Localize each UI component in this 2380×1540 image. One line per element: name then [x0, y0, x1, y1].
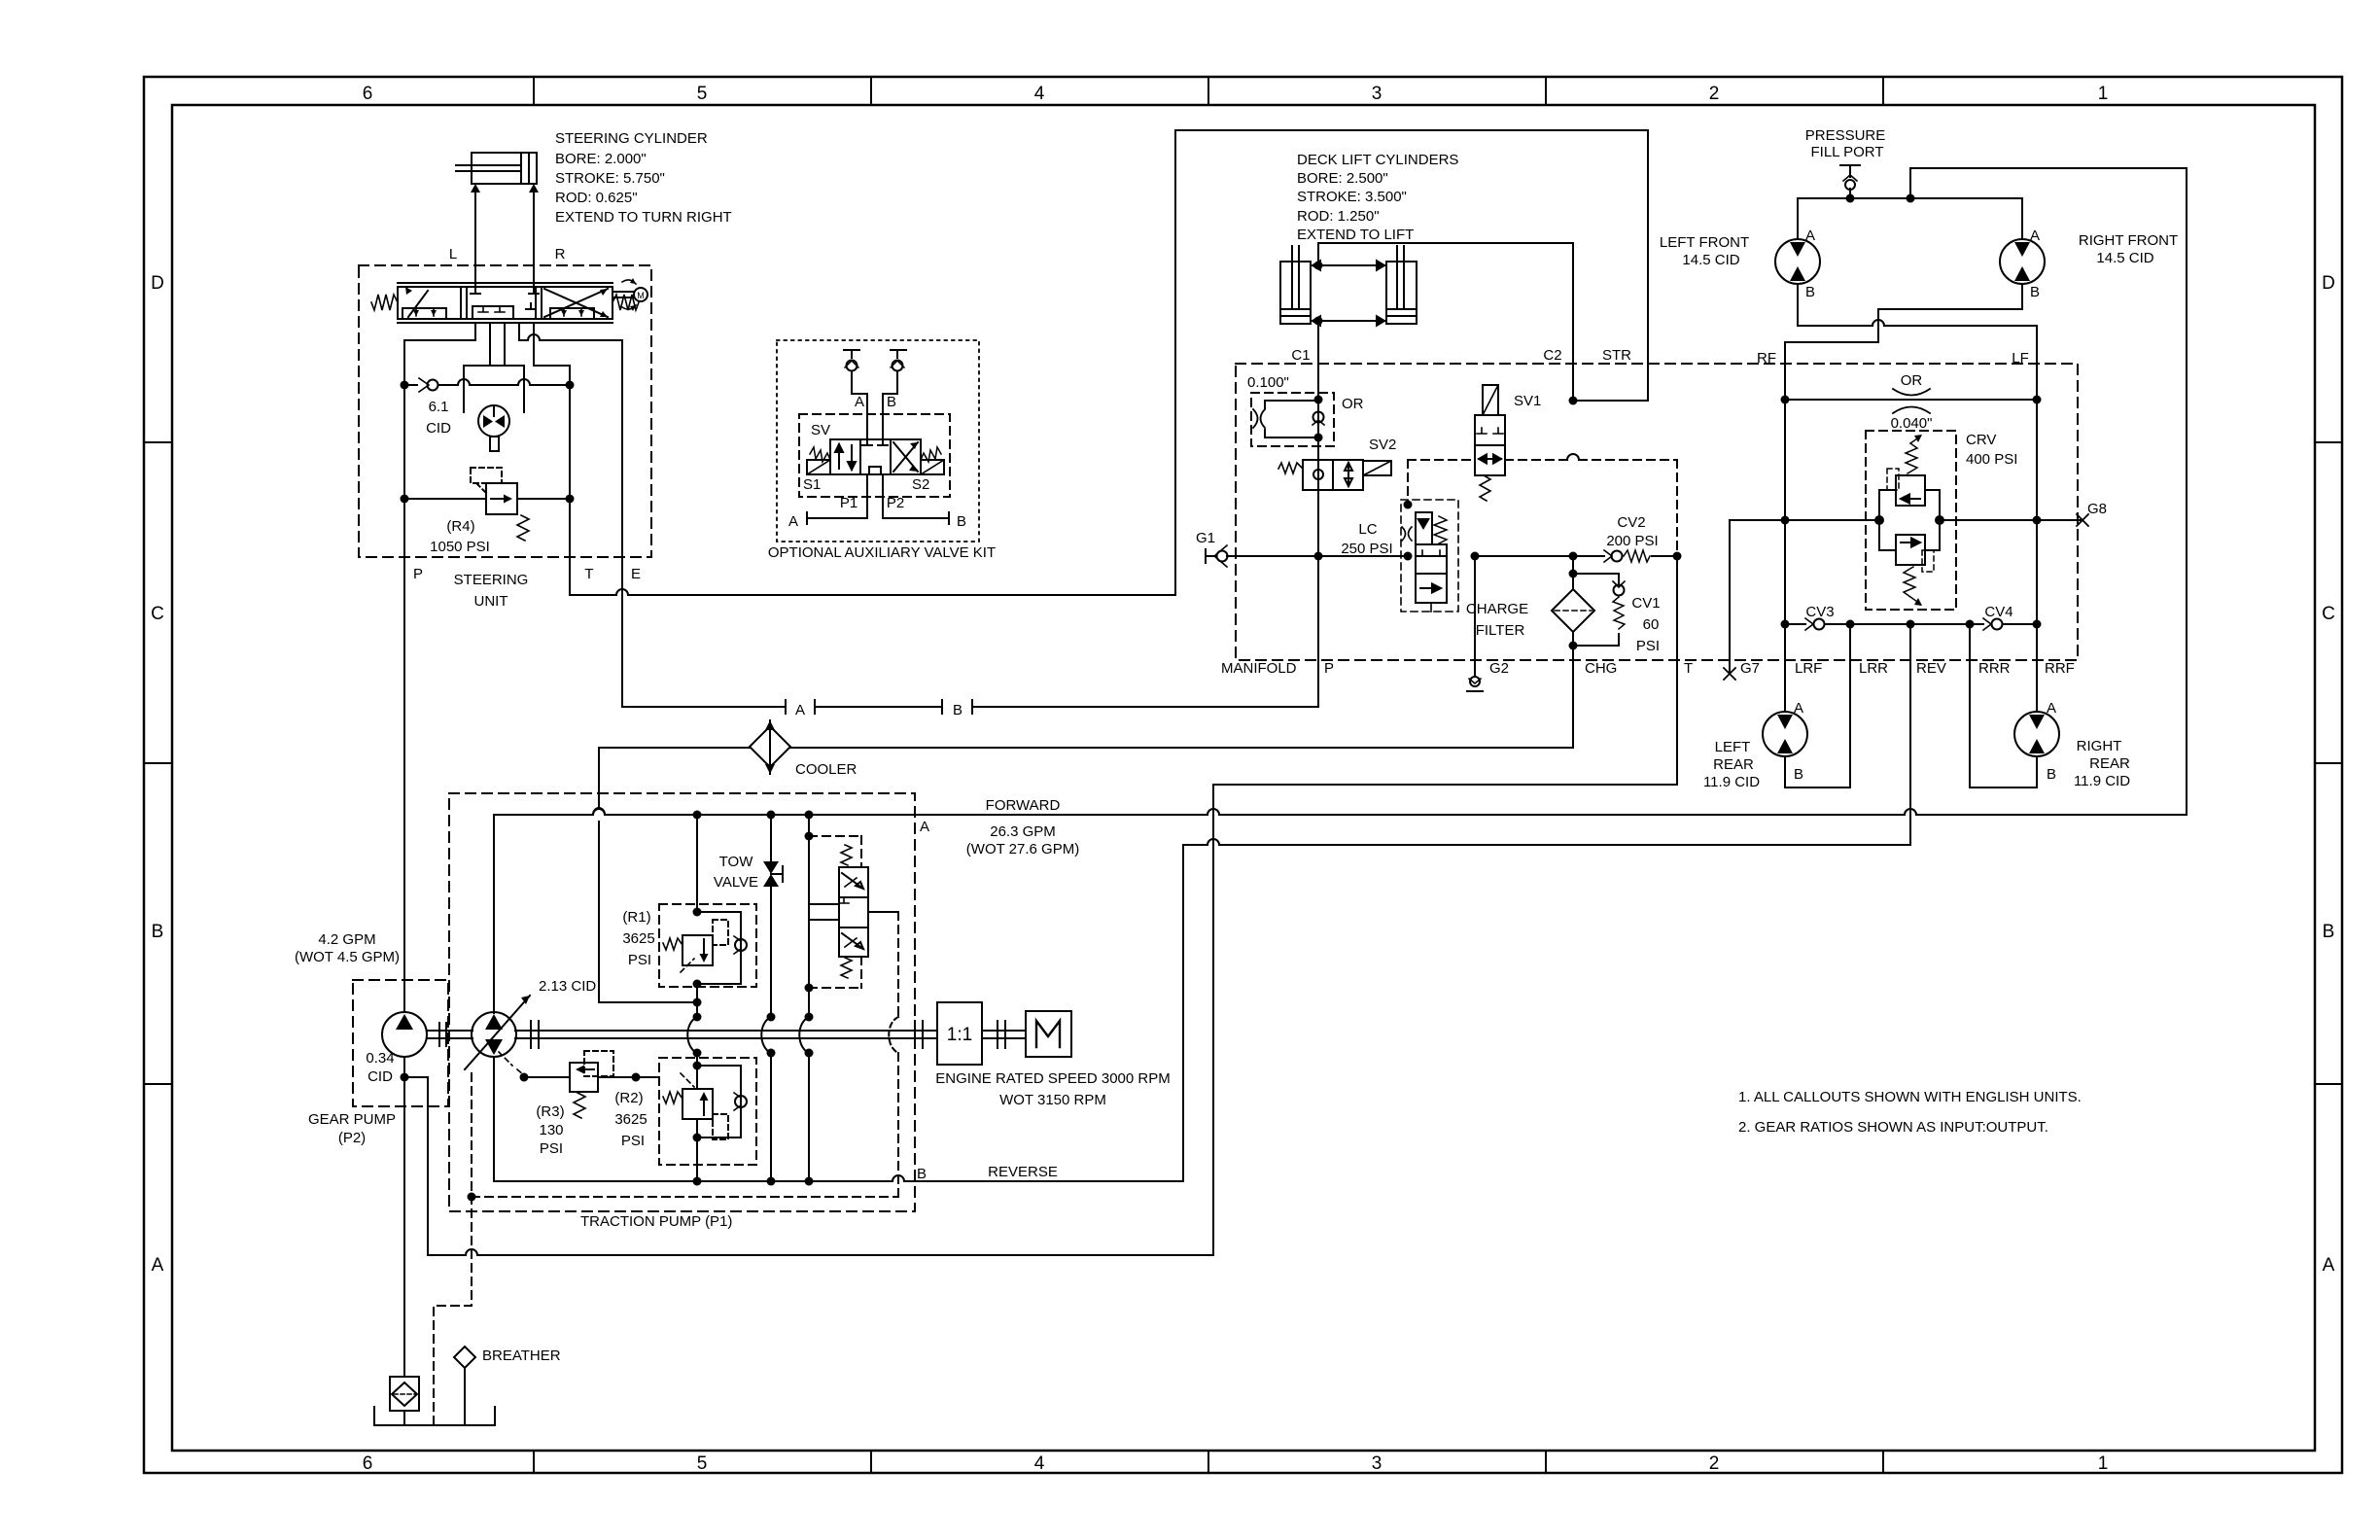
- svg-text:3625: 3625: [614, 1111, 647, 1128]
- servo valve assembly: [799, 815, 898, 1197]
- svg-text:B: B: [152, 922, 164, 942]
- relief R3: [499, 1051, 659, 1118]
- svg-text:S2: S2: [912, 476, 929, 493]
- svg-text:B: B: [1805, 284, 1815, 300]
- svg-text:REVERSE: REVERSE: [988, 1164, 1058, 1180]
- right deck cylinder: [1386, 262, 1417, 324]
- svg-text:L: L: [449, 246, 457, 262]
- svg-text:1. ALL CALLOUTS SHOWN WITH ENG: 1. ALL CALLOUTS SHOWN WITH ENGLISH UNITS…: [1738, 1089, 2082, 1105]
- svg-text:C: C: [2322, 604, 2335, 624]
- steering cylinder port arrow R: [529, 184, 539, 192]
- svg-text:P1: P1: [840, 495, 857, 511]
- wire C1 riser: [1317, 321, 1319, 556]
- svg-text:LRF: LRF: [1795, 660, 1822, 677]
- wire C1 through manifold: [1317, 437, 1319, 660]
- svg-text:SV: SV: [811, 422, 830, 438]
- svg-text:BORE: 2.000": BORE: 2.000": [555, 151, 647, 167]
- motor RIGHT FRONT: [2000, 239, 2045, 309]
- tow valve: [761, 815, 783, 1181]
- svg-text:B: B: [1794, 766, 1803, 783]
- svg-text:TRACTION PUMP (P1): TRACTION PUMP (P1): [580, 1213, 732, 1230]
- gear pump P2: [353, 980, 448, 1106]
- svg-text:E: E: [631, 566, 641, 582]
- svg-text:PRESSURE: PRESSURE: [1805, 127, 1886, 144]
- wire FORWARD A line: [494, 809, 2187, 815]
- left spring: [371, 295, 398, 310]
- check CV1 bypass: [1573, 574, 1625, 646]
- svg-text:SV1: SV1: [1514, 393, 1541, 409]
- svg-text:LC: LC: [1358, 521, 1377, 538]
- svg-text:(R2): (R2): [614, 1090, 643, 1106]
- svg-text:CRV: CRV: [1966, 432, 1996, 448]
- engine M: [1026, 1011, 1071, 1057]
- svg-text:(WOT 4.5 GPM): (WOT 4.5 GPM): [295, 949, 400, 965]
- wire G7-G8 line: [1724, 514, 2088, 680]
- zone ticks right: [2315, 442, 2342, 1084]
- svg-text:5: 5: [697, 1453, 708, 1474]
- wire T inside steering unit: [569, 385, 571, 557]
- svg-text:RIGHT FRONT: RIGHT FRONT: [2079, 232, 2178, 249]
- wire R cylinder to valve: [533, 188, 535, 287]
- svg-text:REAR: REAR: [1713, 756, 1754, 773]
- wire suction down to strainer: [403, 1057, 405, 1377]
- svg-text:VALVE: VALVE: [714, 874, 758, 891]
- svg-text:WOT 3150 RPM: WOT 3150 RPM: [999, 1092, 1106, 1108]
- svg-text:200 PSI: 200 PSI: [1606, 533, 1658, 549]
- svg-text:60: 60: [1643, 616, 1660, 633]
- svg-text:B: B: [887, 394, 896, 410]
- wire LF vertical (RRF): [2036, 326, 2038, 712]
- svg-text:A: A: [1805, 227, 1815, 244]
- orifice OR 0.040 line: [1785, 389, 2037, 413]
- wire T port drop from manifold: [1213, 556, 1677, 1255]
- svg-text:A: A: [920, 819, 929, 835]
- LC pilot dashed line: [1408, 460, 1677, 556]
- svg-text:REV: REV: [1916, 660, 1946, 677]
- svg-text:CV4: CV4: [1984, 604, 2012, 620]
- svg-text:LF: LF: [2012, 350, 2029, 367]
- svg-text:1: 1: [2098, 1453, 2109, 1474]
- svg-text:A: A: [2030, 227, 2040, 244]
- steering valve pilot motor: [612, 278, 647, 311]
- LC orifice arcs: [1402, 527, 1412, 541]
- svg-text:UNIT: UNIT: [474, 593, 508, 610]
- svg-text:26.3 GPM: 26.3 GPM: [990, 823, 1056, 840]
- relief R2 assembly: [659, 1058, 756, 1181]
- svg-text:4.2 GPM: 4.2 GPM: [318, 931, 375, 948]
- steering control valve: [371, 283, 639, 323]
- svg-text:14.5 CID: 14.5 CID: [1682, 252, 1739, 268]
- svg-text:FILL PORT: FILL PORT: [1810, 144, 1883, 160]
- svg-text:G7: G7: [1740, 660, 1760, 677]
- svg-text:0.100": 0.100": [1247, 374, 1289, 391]
- svg-text:(R3): (R3): [536, 1103, 564, 1120]
- svg-text:DECK LIFT CYLINDERS: DECK LIFT CYLINDERS: [1297, 152, 1458, 168]
- center envelope internals: [471, 287, 539, 294]
- LC spring (horizontal zigzag right of check): [1434, 516, 1447, 543]
- wire E line to manifold P: [622, 557, 1318, 714]
- rod-end port line: [1318, 264, 1386, 266]
- svg-text:11.9 CID: 11.9 CID: [2074, 773, 2130, 789]
- svg-text:3625: 3625: [622, 930, 654, 947]
- gearbox 1:1: [937, 1002, 1026, 1065]
- motor LEFT FRONT: [1775, 239, 1820, 326]
- svg-text:2: 2: [1709, 1453, 1720, 1474]
- svg-text:A: A: [152, 1255, 164, 1276]
- svg-text:CID: CID: [367, 1068, 393, 1085]
- gerotor metering unit: [464, 366, 524, 451]
- svg-text:PSI: PSI: [540, 1140, 563, 1157]
- svg-text:D: D: [151, 273, 164, 294]
- check valve line in steering unit: [404, 378, 570, 392]
- aux P1/P2 drops and A/B stubs: [807, 474, 949, 524]
- breather: [454, 1347, 475, 1425]
- front motor B cross wires: [1785, 309, 2037, 342]
- svg-text:B: B: [953, 702, 962, 718]
- left deck cylinder: [1280, 262, 1311, 324]
- svg-text:ROD: 0.625": ROD: 0.625": [555, 190, 638, 206]
- svg-text:6.1: 6.1: [429, 399, 449, 415]
- tank: [374, 1407, 495, 1425]
- charge filter: [1552, 556, 1594, 660]
- svg-text:A: A: [795, 702, 805, 718]
- aux valve SV body: [807, 439, 944, 474]
- svg-text:CHG: CHG: [1585, 660, 1617, 677]
- cross relief valve CRV: [1866, 431, 1956, 610]
- svg-text:FILTER: FILTER: [1476, 622, 1525, 639]
- wire C2 rail: [1318, 243, 1573, 401]
- svg-text:A: A: [855, 394, 864, 410]
- svg-text:250 PSI: 250 PSI: [1341, 541, 1392, 557]
- svg-text:CV1: CV1: [1631, 595, 1660, 612]
- svg-text:LRR: LRR: [1859, 660, 1888, 677]
- svg-text:BREATHER: BREATHER: [482, 1347, 561, 1364]
- svg-text:RIGHT: RIGHT: [2077, 738, 2122, 754]
- svg-text:2: 2: [1709, 84, 1720, 104]
- zone ticks bottom: [534, 1451, 1883, 1473]
- traction pump P1 dashed box: [449, 793, 915, 1211]
- aux valve SV dashed box: [799, 414, 950, 497]
- svg-text:CV2: CV2: [1617, 514, 1645, 531]
- springs: [810, 447, 830, 462]
- svg-text:PSI: PSI: [621, 1133, 645, 1149]
- svg-text:P2: P2: [887, 495, 904, 511]
- svg-text:GEAR PUMP: GEAR PUMP: [308, 1111, 396, 1128]
- svg-text:A: A: [788, 513, 798, 530]
- steering unit internal wires below valve: [404, 323, 622, 557]
- case drain dashed to tank: [434, 1073, 472, 1425]
- svg-text:C1: C1: [1291, 347, 1310, 364]
- node: [401, 381, 409, 390]
- svg-text:130: 130: [539, 1122, 563, 1138]
- shaft gear pump to traction pump: [427, 1023, 472, 1046]
- border inner: [172, 105, 2315, 1451]
- svg-text:11.9 CID: 11.9 CID: [1703, 774, 1760, 790]
- traction pump variable: [465, 815, 530, 1181]
- wire tank return to suction: [404, 1077, 1213, 1255]
- svg-text:G2: G2: [1489, 660, 1509, 677]
- svg-text:STEERING: STEERING: [454, 572, 529, 588]
- front motors rail: [1798, 165, 2187, 815]
- svg-text:B: B: [2323, 922, 2335, 942]
- svg-text:1: 1: [2098, 84, 2109, 104]
- right envelope internals: [544, 289, 608, 317]
- svg-text:LEFT FRONT: LEFT FRONT: [1660, 234, 1749, 251]
- check CV2: [1604, 550, 1677, 562]
- svg-text:1:1: 1:1: [947, 1025, 972, 1045]
- svg-text:B: B: [917, 1166, 927, 1182]
- motor LEFT REAR: [1763, 712, 1850, 787]
- svg-text:(WOT 27.6 GPM): (WOT 27.6 GPM): [966, 841, 1079, 857]
- svg-text:0.34: 0.34: [366, 1050, 394, 1067]
- deck lift cylinders: [1280, 246, 1417, 328]
- cooler: [750, 720, 790, 774]
- servo drain dashed: [472, 1196, 898, 1198]
- svg-text:6: 6: [363, 84, 373, 104]
- svg-text:EXTEND TO TURN RIGHT: EXTEND TO TURN RIGHT: [555, 209, 732, 226]
- left envelope internals: [402, 308, 446, 319]
- manifold dashed box: [1236, 364, 2078, 660]
- optional auxiliary valve kit dotted box: [777, 340, 979, 542]
- svg-text:CHARGE: CHARGE: [1466, 601, 1528, 617]
- zone ticks top: [534, 77, 1883, 105]
- svg-text:CV3: CV3: [1805, 604, 1834, 620]
- svg-text:A: A: [1794, 700, 1803, 717]
- svg-text:M: M: [637, 291, 645, 300]
- svg-text:3: 3: [1372, 1453, 1382, 1474]
- wire STR riser up and across: [1175, 130, 1648, 595]
- svg-text:LEFT: LEFT: [1715, 739, 1751, 755]
- notes: [1738, 1089, 2082, 1136]
- wire R1 vertical through shaft: [696, 1002, 698, 1066]
- svg-text:D: D: [2322, 273, 2335, 294]
- svg-text:R: R: [555, 246, 566, 262]
- svg-text:B: B: [2047, 766, 2056, 783]
- wire RRR drop: [1969, 624, 1971, 787]
- cap-end port line: [1318, 320, 1386, 322]
- svg-text:(R4): (R4): [446, 518, 474, 535]
- svg-text:(R1): (R1): [622, 909, 650, 926]
- relief valve R4: [404, 468, 570, 541]
- svg-text:OR: OR: [1901, 372, 1923, 389]
- svg-text:B: B: [2030, 284, 2040, 300]
- wire cooler line: [593, 748, 1573, 1002]
- svg-text:RRF: RRF: [2045, 660, 2075, 677]
- svg-text:T: T: [1684, 660, 1693, 677]
- orifice OR 0.100 assembly: [1251, 393, 1334, 446]
- svg-text:6: 6: [363, 1453, 373, 1474]
- svg-text:BORE: 2.500": BORE: 2.500": [1297, 170, 1388, 187]
- svg-text:STEERING CYLINDER: STEERING CYLINDER: [555, 130, 708, 147]
- motor RIGHT REAR: [1970, 712, 2059, 787]
- solenoid valve SV1: [1475, 385, 1505, 501]
- svg-text:S1: S1: [803, 476, 821, 493]
- svg-text:P: P: [413, 566, 423, 582]
- svg-text:COOLER: COOLER: [795, 761, 857, 778]
- svg-text:EXTEND TO LIFT: EXTEND TO LIFT: [1297, 227, 1414, 243]
- svg-text:OPTIONAL AUXILIARY VALVE KIT: OPTIONAL AUXILIARY VALVE KIT: [768, 544, 996, 561]
- svg-text:4: 4: [1034, 1453, 1045, 1474]
- wire LRR drop: [1849, 624, 1851, 787]
- svg-text:A: A: [2323, 1255, 2335, 1276]
- svg-text:PSI: PSI: [1636, 638, 1660, 654]
- relief R1 assembly: [659, 815, 756, 1002]
- steering cylinder: [456, 153, 537, 184]
- svg-text:TOW: TOW: [719, 854, 754, 870]
- steering cylinder port arrow L: [471, 184, 480, 192]
- svg-text:SV2: SV2: [1369, 437, 1396, 453]
- zone ticks left: [144, 442, 172, 1084]
- wire REV drop: [1909, 624, 1911, 673]
- svg-text:PSI: PSI: [628, 952, 651, 968]
- wire RF vertical (LRF): [1784, 342, 1786, 712]
- check CV3 / CV4 row: [1785, 618, 2037, 630]
- svg-text:OR: OR: [1342, 396, 1364, 412]
- svg-text:400 PSI: 400 PSI: [1966, 451, 2017, 468]
- svg-text:2.13 CID: 2.13 CID: [539, 978, 596, 995]
- svg-text:4: 4: [1034, 84, 1045, 104]
- svg-text:STROKE: 5.750": STROKE: 5.750": [555, 170, 665, 187]
- strainer: [390, 1377, 419, 1425]
- svg-text:MANIFOLD: MANIFOLD: [1221, 660, 1297, 677]
- svg-text:5: 5: [697, 84, 708, 104]
- wire P down from steering unit: [403, 385, 405, 1012]
- svg-text:ROD: 1.250": ROD: 1.250": [1297, 208, 1380, 225]
- svg-text:C2: C2: [1543, 347, 1561, 364]
- node gear pump suction tee: [401, 1073, 409, 1082]
- wire REVERSE B line: [494, 673, 1910, 1181]
- svg-text:G1: G1: [1196, 530, 1215, 546]
- svg-text:14.5 CID: 14.5 CID: [2096, 250, 2153, 266]
- svg-text:ENGINE RATED SPEED 3000 RPM: ENGINE RATED SPEED 3000 RPM: [935, 1070, 1170, 1087]
- wire T to STR riser: [570, 130, 1648, 595]
- steering unit dashed box: [359, 265, 651, 557]
- solenoid valve SV2: [1278, 460, 1391, 490]
- svg-text:1050 PSI: 1050 PSI: [430, 539, 490, 555]
- svg-text:STR: STR: [1602, 347, 1631, 364]
- aux A/B lines to top checks: [844, 350, 906, 439]
- svg-text:STROKE: 3.500": STROKE: 3.500": [1297, 189, 1407, 205]
- svg-text:B: B: [957, 513, 966, 530]
- svg-text:RF: RF: [1757, 350, 1776, 367]
- svg-text:A: A: [2047, 700, 2056, 717]
- svg-text:T: T: [584, 566, 593, 582]
- wire CHG riser to cooler line: [1572, 646, 1574, 748]
- wire L cylinder to valve: [474, 188, 476, 287]
- shaft traction pump to engine: [515, 1021, 937, 1048]
- svg-text:CID: CID: [426, 420, 451, 437]
- svg-text:P: P: [1324, 660, 1334, 677]
- svg-text:C: C: [151, 604, 164, 624]
- svg-text:(P2): (P2): [338, 1130, 366, 1146]
- svg-text:REAR: REAR: [2089, 755, 2130, 772]
- svg-text:3: 3: [1372, 84, 1382, 104]
- svg-text:0.040": 0.040": [1891, 415, 1933, 432]
- svg-text:2. GEAR RATIOS SHOWN AS INPUT:: 2. GEAR RATIOS SHOWN AS INPUT:OUTPUT.: [1738, 1119, 2048, 1136]
- svg-text:RRR: RRR: [1978, 660, 2011, 677]
- svg-text:FORWARD: FORWARD: [986, 797, 1061, 814]
- G2 drop: [1467, 556, 1483, 691]
- logic cartridge LC: [1401, 500, 1458, 612]
- right spring: [612, 295, 639, 310]
- svg-text:G8: G8: [2087, 501, 2107, 517]
- G1 port and line: [1206, 545, 1604, 567]
